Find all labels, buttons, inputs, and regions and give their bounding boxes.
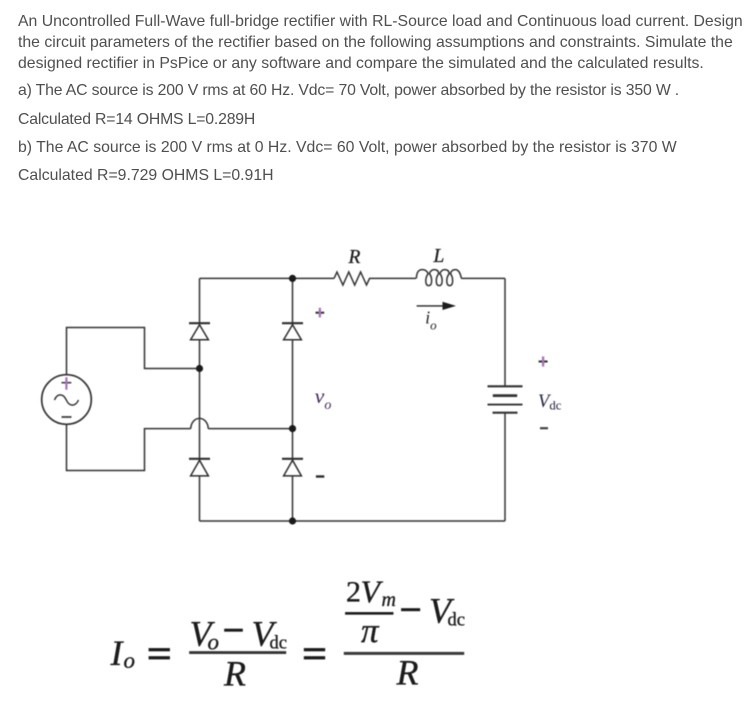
inductor L xyxy=(416,270,461,286)
current io arrow xyxy=(417,305,444,307)
svg-text:Vdc: Vdc xyxy=(538,392,562,413)
battery Vdc plate 1 xyxy=(488,385,523,387)
diode D1 cathode bar xyxy=(189,322,210,324)
top wire from bridge to resistor xyxy=(200,277,335,279)
svg-text:dc: dc xyxy=(270,634,287,654)
label minus at bridge output xyxy=(316,475,324,477)
node minus junction dot bottom xyxy=(289,517,296,524)
equation Io = (Vo - Vdc)/R = (2Vm/pi - Vdc)/R xyxy=(110,574,465,694)
wire hop crossing over left rail xyxy=(191,418,208,428)
left bridge rail wire xyxy=(199,278,201,521)
label plus at battery xyxy=(539,360,548,362)
node plus junction dot top xyxy=(289,275,296,282)
svg-text:R: R xyxy=(396,653,419,693)
AC source plus polarity mark xyxy=(62,382,72,384)
node A junction dot xyxy=(196,365,203,372)
diode D2 triangle xyxy=(284,325,302,340)
bottom return wire xyxy=(200,520,506,522)
svg-text:o: o xyxy=(208,630,220,655)
battery Vdc plate 2 xyxy=(493,394,517,397)
svg-text:m: m xyxy=(382,589,396,611)
right bridge rail wire xyxy=(292,278,294,521)
wire from AC source top to node A xyxy=(67,328,200,375)
svg-text:V: V xyxy=(361,574,384,610)
svg-text:vo: vo xyxy=(315,384,332,413)
svg-text:π: π xyxy=(361,611,380,650)
wire inductor to right corner xyxy=(461,277,505,279)
diode D3 triangle xyxy=(191,460,209,476)
AC source minus polarity mark xyxy=(62,416,72,418)
battery Vdc plate 3 xyxy=(488,404,523,406)
diode D2 cathode bar xyxy=(282,322,303,324)
battery Vdc plate 4 xyxy=(493,412,518,414)
svg-text:R: R xyxy=(223,654,246,694)
wire from AC source bottom to node B xyxy=(67,424,191,470)
AC source sine symbol xyxy=(55,395,79,405)
svg-text:io: io xyxy=(425,308,437,333)
svg-text:2: 2 xyxy=(346,576,361,609)
svg-text:L: L xyxy=(433,246,445,267)
svg-text:R: R xyxy=(348,247,361,268)
diode D4 triangle xyxy=(284,460,302,476)
svg-text:dc: dc xyxy=(448,611,465,631)
svg-text:I: I xyxy=(110,633,125,673)
wire resistor to inductor xyxy=(374,277,417,279)
label plus at bridge output xyxy=(316,312,325,314)
label minus at battery xyxy=(540,427,548,429)
resistor R xyxy=(334,272,374,285)
diode D1 triangle xyxy=(191,325,209,340)
node B junction dot xyxy=(289,425,296,432)
diode D4 cathode bar xyxy=(282,458,303,460)
wire down to battery Vdc xyxy=(504,278,506,386)
wire from hop to node B on right rail xyxy=(208,428,292,430)
wire from battery bottom to bottom rail xyxy=(504,413,506,521)
AC source Vs xyxy=(42,375,92,425)
svg-text:o: o xyxy=(124,648,136,673)
diode D3 cathode bar xyxy=(189,458,210,460)
